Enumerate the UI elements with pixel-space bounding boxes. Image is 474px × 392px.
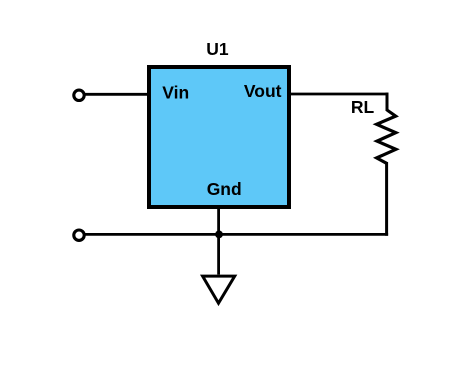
resistor RL zigzag bbox=[377, 110, 396, 163]
svg-text:Gnd: Gnd bbox=[207, 179, 242, 199]
svg-text:U1: U1 bbox=[206, 39, 229, 59]
wire resistor bottom lead down to bottom rail bbox=[385, 162, 388, 236]
wire Gnd pin down through junction to ground symbol bbox=[217, 207, 220, 275]
svg-text:RL: RL bbox=[351, 97, 375, 117]
svg-text:Vout: Vout bbox=[244, 81, 282, 101]
regulator U1 body bbox=[149, 67, 289, 207]
node return terminal (bottom left) bbox=[74, 230, 84, 240]
ground symbol bbox=[203, 276, 235, 303]
wire input from terminal to Vin pin bbox=[84, 93, 149, 96]
wire Vout pin to resistor top bbox=[289, 93, 388, 96]
svg-text:Vin: Vin bbox=[162, 83, 189, 103]
junction dot at Gnd node bbox=[215, 231, 223, 239]
wire bottom rail bbox=[84, 233, 388, 236]
node input terminal (top left) bbox=[74, 90, 84, 100]
wire resistor top lead bbox=[386, 93, 389, 111]
